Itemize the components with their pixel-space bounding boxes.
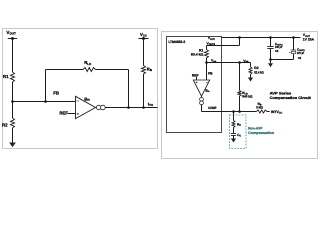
wire R1 to FB node: [12, 82, 14, 102]
svg-text:VCC: VCC: [140, 32, 147, 38]
svg-text:RB: RB: [147, 66, 152, 72]
svg-text:AVP Series: AVP Series: [270, 92, 292, 96]
wire FB node to R2: [12, 102, 14, 119]
svg-text:R2: R2: [254, 66, 258, 70]
svg-text:FB: FB: [208, 72, 213, 76]
wire RLD loop top left: [46, 69, 84, 71]
svg-text:gm: gm: [84, 96, 90, 102]
wire FB stub to amp: [206, 63, 208, 81]
svg-text:LTM4653-2: LTM4653-2: [168, 40, 185, 44]
op-amp gm (block error amplifier): [193, 80, 209, 96]
op-amp gm (left error amplifier): [76, 96, 96, 118]
gm output current-source circles (block): [200, 97, 204, 101]
wire rail to COUT2: [293, 38, 295, 51]
svg-text:COMP: COMP: [208, 106, 217, 110]
svg-text:RLD: RLD: [84, 60, 91, 66]
wire amp apex to circles: [96, 107, 97, 109]
plus sign at REF input (block): [196, 81, 198, 83]
resistor RLD (left feedback): [83, 68, 96, 72]
svg-text:80.4 kΩ: 80.4 kΩ: [191, 53, 204, 57]
wire RLD loop right vertical: [128, 70, 130, 108]
wire VOUTS pin: [207, 45, 240, 47]
wire VCC to RB: [143, 39, 145, 66]
resistor RLD (AVP series): [238, 91, 241, 96]
wire FB node to amp minus input: [13, 101, 76, 103]
dashed box non-AVP compensation: [230, 115, 247, 149]
wire ITH output: [105, 107, 157, 109]
svg-text:VOUT: VOUT: [6, 30, 16, 36]
svg-text:R2: R2: [2, 122, 8, 127]
wire COMP out: [202, 111, 257, 113]
node VCC terminal: [139, 38, 149, 40]
svg-text:82.4 kΩ: 82.4 kΩ: [254, 70, 264, 74]
node RB bottom junction dot: [142, 106, 145, 109]
minus sign at FB input (block): [206, 81, 208, 83]
wire VOUT to R1: [12, 39, 14, 73]
svg-text:540 kΩ: 540 kΩ: [242, 95, 253, 99]
right panel frame: [162, 32, 318, 159]
node ITH loop junction dot: [127, 106, 130, 109]
wire VOUTS tie-up: [239, 38, 241, 46]
node RLD-COMP junction dot: [238, 110, 241, 113]
svg-text:×4: ×4: [275, 49, 279, 53]
wire RLD loop top right: [96, 69, 129, 71]
node cap-gnd junction dot: [269, 58, 272, 61]
wire COMP down: [201, 105, 203, 112]
resistor R2 (external): [249, 67, 252, 74]
ground (output caps): [270, 60, 272, 64]
wire COMP to RC: [233, 112, 235, 121]
gm output current-source circles (left): [96, 105, 101, 110]
node RLD tap dot: [44, 100, 47, 103]
wire REF stub (block): [196, 77, 198, 80]
svg-text:FB: FB: [53, 90, 59, 95]
svg-text:INTVCC: INTVCC: [271, 110, 282, 115]
svg-text:REF: REF: [59, 111, 68, 116]
wire REF stub (left): [68, 113, 76, 115]
svg-text:1V 25A: 1V 25A: [303, 37, 315, 41]
wire COUT1 to gnd rail: [270, 49, 272, 60]
node VOUTS tie dot: [238, 36, 241, 39]
ground (R2): [250, 74, 252, 77]
wire rail to COUT1: [270, 38, 272, 47]
resistor RC: [232, 121, 235, 128]
wire VFB to RLD: [239, 63, 241, 91]
svg-text:REF: REF: [192, 73, 199, 77]
svg-text:Compensation: Compensation: [248, 131, 274, 135]
svg-text:Compensation Circuit: Compensation Circuit: [270, 96, 312, 100]
wire VFB to R2 corner: [250, 63, 252, 67]
capacitor COUT2 (polarized): [291, 49, 296, 51]
ground (left divider): [12, 128, 14, 143]
resistor R2 (left divider bottom): [11, 118, 15, 128]
svg-text:×2: ×2: [298, 56, 302, 60]
svg-text:Non-AVP: Non-AVP: [248, 127, 263, 131]
wire COUT2 to gnd rail: [293, 54, 295, 60]
wire VOUT rail: [222, 37, 301, 39]
ground (CC): [233, 136, 235, 139]
wire RB to INTVCC: [267, 111, 270, 113]
wire amp apex to circles (block): [201, 96, 203, 97]
resistor RB (to INTVCC): [256, 110, 267, 113]
node FB junction dot: [11, 100, 14, 103]
wire VFB net: [207, 62, 251, 64]
resistor RB (left): [142, 66, 146, 74]
wire cap bottom rail: [271, 59, 294, 61]
wire RB to ITH node: [143, 74, 145, 108]
capacitor CC: [231, 133, 236, 135]
node COUT2 rail dot: [292, 36, 295, 39]
wire RC to CC: [233, 128, 235, 134]
plus sign at REF input (left): [77, 113, 79, 115]
left panel frame: [3, 29, 158, 149]
resistor R1 (left divider top): [11, 72, 15, 82]
capacitor COUT1: [267, 46, 273, 48]
resistor R1 (inside block): [206, 46, 208, 50]
plus sign COUT2: [289, 52, 290, 54]
node COUT1 rail dot: [269, 36, 272, 39]
node VFB-RLD tap dot: [238, 61, 241, 64]
wire RLD loop left vertical: [45, 70, 47, 102]
svg-text:R1: R1: [3, 74, 9, 79]
svg-text:5 MΩ: 5 MΩ: [256, 106, 263, 110]
svg-text:ITH: ITH: [148, 102, 153, 108]
wire RLD to COMP node: [239, 96, 241, 112]
node VOUT terminal: [8, 38, 17, 40]
minus sign at FB input (left): [77, 100, 79, 102]
svg-text:470 µF: 470 µF: [297, 51, 304, 55]
IC block U1 LTM4653-2 outline: [167, 37, 222, 133]
node COMP-RC tap dot: [232, 110, 235, 113]
node VFB junction dot (block): [205, 61, 208, 64]
